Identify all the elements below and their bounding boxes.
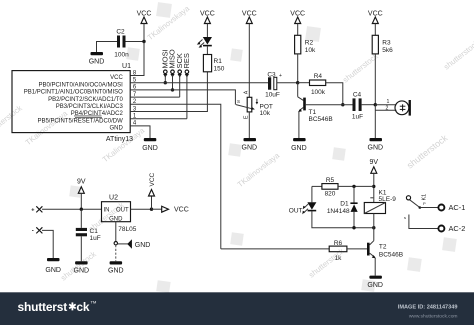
capacitor C2 xyxy=(114,29,129,59)
svg-text:C4: C4 xyxy=(353,92,362,99)
svg-text:IN: IN xyxy=(104,207,110,213)
svg-text:R2: R2 xyxy=(305,40,314,47)
svg-text:R1: R1 xyxy=(214,58,223,65)
wire VCC to C2 junction xyxy=(143,26,145,42)
svg-text:GND: GND xyxy=(367,282,383,289)
svg-text:100k: 100k xyxy=(311,89,326,96)
wire pin1 row xyxy=(130,118,187,120)
wire U2 GND pin down xyxy=(115,222,117,242)
node VCC/C2/pin8 junction xyxy=(142,40,145,43)
wire base row to R6 xyxy=(221,248,329,250)
node input junction xyxy=(80,208,83,211)
wire MISO down to pin6 row xyxy=(172,75,174,90)
svg-text:shutterst: shutterst xyxy=(18,300,68,314)
node coil bottom junction xyxy=(372,226,375,229)
resistor R6 xyxy=(329,240,347,262)
svg-text:10k: 10k xyxy=(260,110,271,117)
node R4/base row junction xyxy=(341,103,344,106)
footer bar xyxy=(0,292,474,325)
svg-text:AC-2: AC-2 xyxy=(449,224,466,233)
wire C3 to base node xyxy=(277,82,298,84)
svg-text:1: 1 xyxy=(387,99,390,105)
input terminal -X xyxy=(32,227,43,234)
svg-text:OUT: OUT xyxy=(116,207,129,213)
svg-text:VCC: VCC xyxy=(149,172,156,186)
wire node to R4 xyxy=(298,82,310,84)
power VCC symbol over R2 xyxy=(290,11,305,27)
svg-text:www.shutterstock.com: www.shutterstock.com xyxy=(409,313,458,319)
svg-text:GND: GND xyxy=(142,145,158,152)
terminal AC-2 xyxy=(438,224,465,233)
wire SCK down to pin7 row xyxy=(179,75,181,97)
dashed wire down to ground xyxy=(115,245,117,261)
svg-text:GND: GND xyxy=(291,145,307,152)
svg-text:ATtiny13: ATtiny13 xyxy=(106,136,133,143)
wire R2 down to node xyxy=(297,54,299,83)
node R3/C4/mic junction xyxy=(374,103,377,106)
node R2/C3/R4/T1 junction xyxy=(296,81,299,84)
capacitor C4 xyxy=(352,92,363,121)
wire pin7 row xyxy=(130,96,180,98)
svg-text:AC-1: AC-1 xyxy=(449,203,466,212)
node D1 bottom junction xyxy=(352,226,355,229)
svg-text:s: s xyxy=(404,215,406,220)
svg-text:U1: U1 xyxy=(122,63,131,70)
wire VCC to LED xyxy=(206,26,208,37)
footer shutterstock logo xyxy=(18,300,97,314)
wire C4 to mic node xyxy=(362,104,376,106)
resistor R1 xyxy=(203,55,224,73)
wire C2 left to GND xyxy=(97,42,118,53)
svg-text:IMAGE ID: 2481147349: IMAGE ID: 2481147349 xyxy=(398,304,458,310)
svg-text:R4: R4 xyxy=(314,73,323,80)
wire R4 right down to base row xyxy=(326,83,343,105)
svg-text:OUT: OUT xyxy=(289,208,303,215)
wire T1 base row to C4 xyxy=(306,104,353,106)
ground at U2 xyxy=(108,261,124,274)
wire R5 to 9V node xyxy=(338,185,374,187)
wire -X to ground xyxy=(42,230,53,258)
svg-text:P: P xyxy=(423,201,426,206)
LED OUT indicator xyxy=(289,186,317,214)
svg-text:78L05: 78L05 xyxy=(118,226,136,233)
capacitor C3 polarized xyxy=(265,71,282,98)
IC U1 ATtiny13 box xyxy=(12,71,130,133)
svg-text:1N4148: 1N4148 xyxy=(327,208,350,215)
wire mic node down to ground xyxy=(374,105,376,138)
svg-text:D1: D1 xyxy=(340,201,349,208)
wire fixed contact to AC-2 xyxy=(404,215,438,229)
svg-text:+: + xyxy=(279,73,282,79)
wire U2 OUT to VCC node xyxy=(131,208,152,210)
header pin MOSI xyxy=(160,49,169,77)
svg-text:E: E xyxy=(244,115,250,119)
svg-text:2: 2 xyxy=(386,106,389,112)
svg-text:T2: T2 xyxy=(379,244,387,251)
wire VCC to R2 xyxy=(297,26,299,35)
ground at T1 xyxy=(291,138,307,152)
IC U1 pin numbers xyxy=(133,70,137,126)
svg-text:9V: 9V xyxy=(77,179,86,186)
wire T1 emitter to ground xyxy=(298,112,300,139)
svg-text:5LE-9: 5LE-9 xyxy=(379,196,397,203)
svg-text:PB1/PCINT1/AIN1/OC0B/INT0/MISO: PB1/PCINT1/AIN1/OC0B/INT0/MISO xyxy=(24,90,123,96)
svg-text:1uF: 1uF xyxy=(90,235,101,242)
svg-text:VCC: VCC xyxy=(174,207,189,214)
wire mic pin 2 to ground line xyxy=(375,109,396,111)
node MOSI junction xyxy=(164,81,167,84)
regulator U2 78L05 xyxy=(102,195,137,234)
svg-text:5k6: 5k6 xyxy=(382,47,393,54)
transistor T1 BC546B xyxy=(298,83,333,123)
svg-text:S: S xyxy=(237,99,240,104)
wire VCC down to pot top xyxy=(248,26,250,97)
wire LED to R1 xyxy=(206,46,208,54)
wire VCC to R3 xyxy=(374,26,376,35)
svg-text:TM: TM xyxy=(91,300,97,305)
wire coil bottom to T2 collector xyxy=(373,214,375,241)
node D1 top junction xyxy=(352,185,355,188)
wire T2 emitter to ground xyxy=(374,258,376,276)
resistor R5 xyxy=(322,177,338,197)
input terminal +X xyxy=(31,206,42,213)
diode D1 1N4148 xyxy=(327,186,358,227)
transistor T2 BC546B xyxy=(367,241,403,259)
svg-text:GND: GND xyxy=(108,268,124,275)
wire C1 to ground xyxy=(80,236,82,261)
power VCC symbol over LED xyxy=(200,11,215,27)
ground at pin 4 xyxy=(142,138,158,152)
svg-text:GND: GND xyxy=(242,145,258,152)
terminal AC-1 xyxy=(438,203,465,212)
wire pin 4 to ground xyxy=(130,126,150,138)
svg-text:BC546B: BC546B xyxy=(309,116,333,123)
net flag GND at U2 xyxy=(118,239,151,249)
wire pot bottom to ground xyxy=(248,112,250,138)
svg-text:+: + xyxy=(31,207,34,213)
svg-text:PB5/PCINT5/RESET/ADC0/DW: PB5/PCINT5/RESET/ADC0/DW xyxy=(37,118,123,124)
header pin RES xyxy=(182,53,191,77)
relay K1 contact xyxy=(406,194,437,209)
power VCC symbol up from U2 xyxy=(149,172,156,209)
svg-text:GND: GND xyxy=(368,145,384,152)
resistor R4 xyxy=(310,73,326,96)
svg-text:150: 150 xyxy=(214,65,225,72)
ground at C1 xyxy=(74,261,90,274)
watermark squares xyxy=(69,2,457,293)
power VCC symbol over C2 xyxy=(137,11,152,27)
wire LED down and across to coil bottom xyxy=(312,211,374,227)
svg-text:BC546B: BC546B xyxy=(379,251,403,258)
wire R3 down to mic node xyxy=(374,54,376,105)
svg-text:1uF: 1uF xyxy=(352,114,363,121)
IC U1 pin name texts xyxy=(24,75,124,131)
ground at microphone xyxy=(368,138,384,152)
relay K1 coil xyxy=(364,190,396,214)
wire C2 right to junction xyxy=(126,41,145,43)
node U2 output junction xyxy=(150,208,153,211)
svg-text:ck: ck xyxy=(76,300,89,314)
svg-text:10k: 10k xyxy=(305,47,316,54)
node MISO junction xyxy=(171,88,174,91)
svg-text:GND: GND xyxy=(89,59,105,66)
svg-text:GND: GND xyxy=(135,242,151,249)
capacitor C1 xyxy=(76,228,101,242)
wire pin5 row to C3 xyxy=(130,82,268,84)
wire MOSI down to pin5 row xyxy=(164,75,166,83)
power VCC symbol over R3 xyxy=(368,11,383,27)
svg-text:9V: 9V xyxy=(370,159,379,166)
potentiometer POT 10k xyxy=(236,90,273,119)
power VCC symbol over potentiometer xyxy=(242,11,257,27)
power 9V symbol over relay xyxy=(370,159,379,176)
resistor R3 xyxy=(372,35,393,54)
node GND net circle xyxy=(114,242,117,245)
wire pin6 row to pot wiper xyxy=(130,90,235,105)
wire R5 row xyxy=(312,185,322,187)
node 9V/R5 junction xyxy=(372,185,375,188)
svg-text:A: A xyxy=(243,90,249,94)
wire 9V down to relay coil xyxy=(373,176,375,203)
wire junction down to pin 8 xyxy=(130,42,144,76)
svg-text:100n: 100n xyxy=(114,52,129,59)
svg-text:R3: R3 xyxy=(382,40,391,47)
svg-text:820: 820 xyxy=(325,190,336,197)
svg-text:PB4/PCINT4/ADC2: PB4/PCINT4/ADC2 xyxy=(71,111,124,117)
svg-text:10uF: 10uF xyxy=(265,92,280,99)
svg-text:PB2/PCINT2/SCK/ADC1/T0: PB2/PCINT2/SCK/ADC1/T0 xyxy=(48,97,123,103)
svg-text:GND: GND xyxy=(109,126,123,132)
svg-text:PB0/PCINT0/AIN0/OC0A/MOSI: PB0/PCINT0/AIN0/OC0A/MOSI xyxy=(38,82,123,88)
svg-text:1k: 1k xyxy=(335,255,343,262)
header pin SCK xyxy=(175,53,184,77)
svg-text:GND: GND xyxy=(109,216,123,222)
wire junction down to C1 xyxy=(80,209,82,228)
microphone M1 xyxy=(395,100,411,116)
svg-text:-: - xyxy=(32,229,34,235)
ground at potentiometer xyxy=(242,138,258,152)
wire R6 to T2 base xyxy=(347,248,367,250)
svg-text:T1: T1 xyxy=(309,109,317,116)
wire +X to 9V junction xyxy=(42,208,102,210)
ground at -X input xyxy=(45,258,61,274)
ground at T2 xyxy=(367,276,383,289)
wire pin3 row to R1 xyxy=(130,72,207,112)
resistor R2 xyxy=(295,35,316,54)
svg-text:C2: C2 xyxy=(116,29,125,36)
svg-text:K1: K1 xyxy=(422,194,428,201)
wire RES down to pin1 row xyxy=(186,75,188,119)
ground at C2 xyxy=(89,52,105,66)
svg-text:GND: GND xyxy=(74,268,90,275)
svg-text:PB3/PCINT3/CLKI/ADC3: PB3/PCINT3/CLKI/ADC3 xyxy=(56,104,124,110)
LED indicator diode xyxy=(197,37,212,48)
wire pin2 row down to relay row xyxy=(130,104,221,249)
svg-text:VCC: VCC xyxy=(110,75,123,81)
svg-text:U2: U2 xyxy=(109,195,118,202)
svg-text:RES: RES xyxy=(182,53,191,68)
svg-text:GND: GND xyxy=(45,267,61,274)
net arrow VCC to the right xyxy=(152,206,189,214)
header pin MISO xyxy=(168,49,177,77)
power 9V symbol at input xyxy=(77,179,86,210)
wire mic pin 1 xyxy=(375,104,396,106)
